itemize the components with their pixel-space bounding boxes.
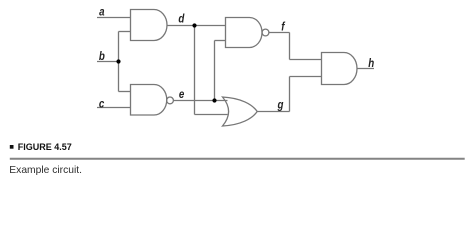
wire output h	[357, 68, 374, 70]
wire b vertical	[118, 32, 120, 92]
wire node g horizontal	[257, 111, 290, 113]
nand-gate U3 bubble	[262, 29, 269, 36]
wire b to U1 lower input	[119, 31, 132, 33]
svg-text:FIGURE 4.57: FIGURE 4.57	[18, 142, 72, 152]
junction dot node e	[212, 98, 216, 102]
nand-gate U2 bubble	[167, 97, 174, 104]
and-gate U1 body	[131, 10, 167, 41]
wire input b horizontal	[97, 61, 119, 63]
wire e vertical	[214, 41, 216, 101]
or-gate U4 body	[223, 97, 258, 126]
nand-gate U3 body	[226, 18, 263, 48]
wire node f horizontal	[269, 32, 290, 34]
wire d to OR lower input	[195, 114, 228, 116]
svg-text:a: a	[99, 6, 104, 19]
wire input a	[97, 17, 131, 19]
junction dot node b	[116, 59, 120, 63]
svg-text:b: b	[99, 50, 105, 63]
wire g to U5 lower input	[290, 76, 322, 78]
wire node e horizontal	[174, 100, 228, 102]
wire e to U3 lower input	[215, 40, 226, 42]
wire node d vertical	[194, 26, 196, 115]
figure bullet square	[10, 145, 14, 149]
svg-text:Example circuit.: Example circuit.	[9, 165, 82, 176]
caption rule	[10, 158, 465, 160]
svg-text:g: g	[277, 98, 284, 111]
svg-text:d: d	[178, 12, 184, 25]
and-gate U5 body	[322, 53, 358, 85]
nand-gate U2 body	[131, 85, 167, 116]
wire input c	[97, 107, 131, 109]
wire f vertical	[289, 33, 291, 60]
svg-text:f: f	[281, 21, 285, 34]
wire g vertical	[289, 77, 291, 112]
wire f to U5 upper input	[290, 59, 322, 61]
svg-text:e: e	[179, 88, 184, 101]
svg-text:c: c	[99, 97, 104, 110]
svg-text:h: h	[368, 57, 374, 70]
junction dot node d	[192, 23, 196, 27]
wire b to U2 upper input	[119, 91, 132, 93]
wire node d horizontal	[167, 25, 226, 27]
